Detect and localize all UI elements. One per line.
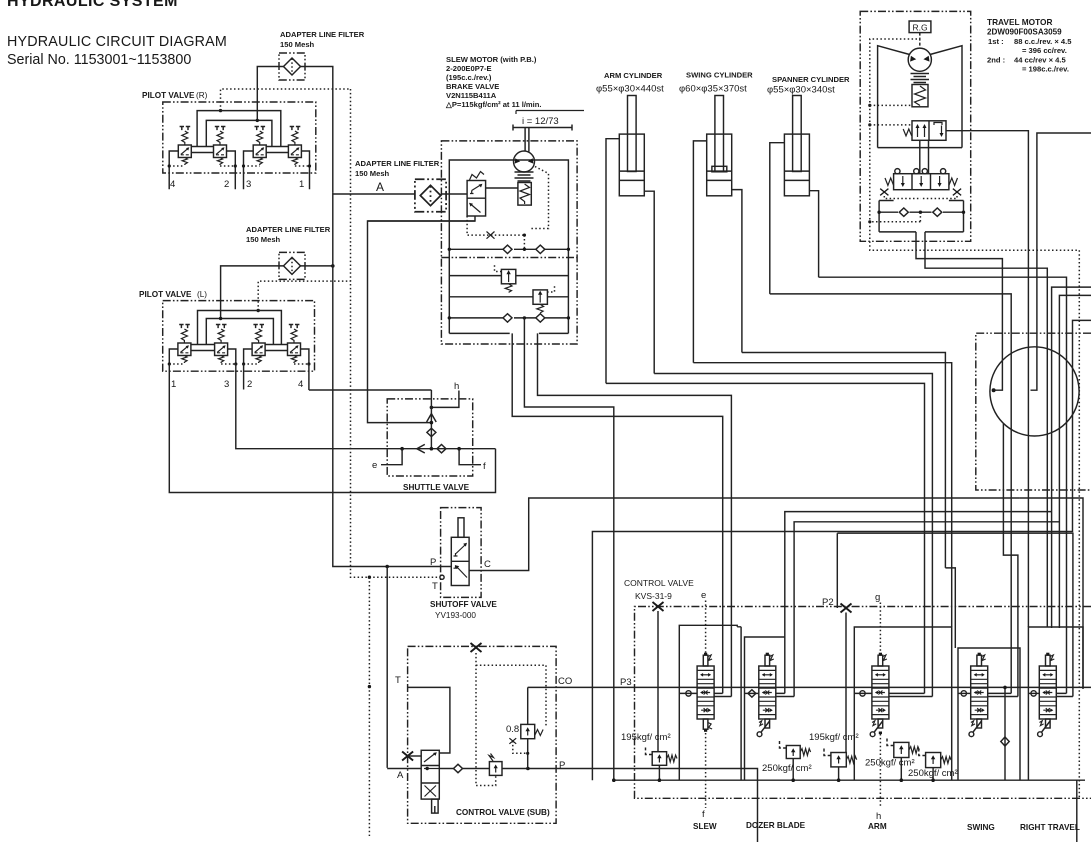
svg-text:f: f <box>483 461 486 472</box>
symbol bottom cell shutoff <box>454 565 468 577</box>
wire pilot return bundle 1 <box>785 287 1091 693</box>
enclosure control valve sub <box>408 646 556 823</box>
mid relief sub <box>489 762 502 776</box>
wire travel line A <box>916 232 1002 385</box>
drain dotted to tank line pilot R <box>221 89 351 111</box>
svg-text:1: 1 <box>299 179 304 190</box>
stubs swing right <box>988 693 1018 696</box>
wire e stub <box>381 449 402 465</box>
relief line upper <box>449 275 568 277</box>
svg-text:= 198c.c./rev.: = 198c.c./rev. <box>1022 65 1069 74</box>
wire T port <box>408 687 450 753</box>
wire port drop R1 <box>301 151 309 189</box>
svg-text:P: P <box>430 557 436 568</box>
x plug P2 <box>841 604 852 613</box>
arm cylinder <box>619 96 644 196</box>
wire A through valve to P <box>439 768 489 770</box>
brake release valve <box>467 181 486 217</box>
svg-text:g: g <box>875 592 880 603</box>
wire pilot return bundle 3 <box>592 320 1091 780</box>
wire pilot L port1 return <box>169 364 495 493</box>
dotted pilot network <box>476 653 496 786</box>
brake disc stack <box>911 74 930 83</box>
relief line lower <box>449 296 568 298</box>
svg-text:ADAPTER LINE FILTER: ADAPTER LINE FILTER <box>355 159 440 168</box>
spanner cylinder <box>784 96 809 196</box>
svg-text:150 Mesh: 150 Mesh <box>355 169 390 178</box>
stubs right travel right <box>1056 693 1073 696</box>
svg-text:h: h <box>876 811 881 822</box>
wire long vertical P supply (filter1 right) down to shutoff P <box>333 193 451 567</box>
svg-text:195kgf/ cm²: 195kgf/ cm² <box>809 732 859 743</box>
svg-text:h: h <box>454 381 459 392</box>
brake cylinder with spring <box>518 183 531 206</box>
wire port drop L4 <box>301 349 309 364</box>
x plug P1 <box>653 602 664 611</box>
arrow left on shuttle e line <box>417 444 425 453</box>
check diamond on shuttle f line <box>437 445 446 453</box>
pilot unit L2 <box>252 325 265 364</box>
enclosure travel motor <box>860 11 971 241</box>
spool dozer <box>759 653 776 719</box>
spring two speed valve <box>903 129 912 136</box>
svg-text:e: e <box>701 590 706 601</box>
spool right travel <box>1039 653 1056 719</box>
rail drop right <box>1076 780 1078 842</box>
travel motor circle <box>908 48 931 71</box>
enclosure KVS dash-dot <box>635 607 1091 799</box>
svg-text:PILOT VALVE: PILOT VALVE <box>139 290 192 299</box>
relief valve slew 2 <box>533 290 547 304</box>
travel brake cylinder <box>912 85 928 107</box>
wire filter F3 right to slew valve <box>441 193 467 195</box>
wire slew exit B <box>524 318 613 780</box>
work frame right travel section <box>1028 627 1083 780</box>
svg-text:△P=115kgf/cm² at 11 l/min.: △P=115kgf/cm² at 11 l/min. <box>445 100 542 109</box>
svg-text:P2: P2 <box>822 597 834 608</box>
tank dotted rail down to shutoff T <box>351 89 441 577</box>
wire A port <box>387 768 421 770</box>
wire swing head line across <box>742 353 955 649</box>
drain dotted segments pilot R <box>169 165 309 167</box>
svg-text:2nd :: 2nd : <box>987 56 1005 65</box>
wire filter F2 right to long vertical <box>301 265 333 267</box>
riser P1 to slew relief <box>657 611 659 752</box>
wire arm rod line across <box>606 383 925 693</box>
filter F3 <box>415 179 446 211</box>
svg-text:A: A <box>376 180 384 194</box>
check diamond on shuttle center <box>427 428 436 436</box>
enclosure shutoff valve <box>441 508 482 598</box>
svg-text:e: e <box>372 460 377 471</box>
stub swing left with bypass circle <box>958 692 971 694</box>
svg-text:P3: P3 <box>620 677 632 688</box>
pilot unit L1 <box>178 325 191 364</box>
svg-text:ADAPTER LINE FILTER: ADAPTER LINE FILTER <box>246 225 331 234</box>
wire spanner head-side port <box>809 191 819 278</box>
wire C output <box>469 498 1019 571</box>
check line lower <box>449 317 568 319</box>
svg-text:SLEW MOTOR (with P.B.): SLEW MOTOR (with P.B.) <box>446 55 537 64</box>
check line upper <box>449 248 568 250</box>
wire speed pilot in from edge <box>1037 133 1091 381</box>
wire pilot L port3 check line <box>236 364 496 449</box>
slew motor circle <box>514 151 535 172</box>
svg-text:SHUTOFF VALVE: SHUTOFF VALVE <box>430 600 497 609</box>
svg-text:250kgf/ cm²: 250kgf/ cm² <box>865 758 915 769</box>
stub dozer left with bypass diamond <box>745 692 759 694</box>
enclosure shuttle valve <box>387 399 473 476</box>
wire slew exit A <box>512 333 723 693</box>
pilot line f dotted <box>705 733 707 808</box>
stubs slew right <box>714 693 731 696</box>
sub valve tab <box>432 799 439 813</box>
wire arm head line across <box>654 374 932 697</box>
dotted brake pilot <box>531 167 548 229</box>
svg-text:= 396 cc/rev.: = 396 cc/rev. <box>1022 46 1067 55</box>
svg-text:44 cc/rev × 4.5: 44 cc/rev × 4.5 <box>1014 56 1067 65</box>
wire CO / P3 main line <box>528 686 1091 688</box>
svg-text:1st :: 1st : <box>988 37 1004 46</box>
brake disc stack <box>515 172 534 181</box>
wire port drop L2 <box>244 349 253 364</box>
wire pilot return bundle 2 <box>794 295 1091 696</box>
x plug on top border <box>471 643 482 652</box>
wire link L1-L3 <box>191 345 215 351</box>
svg-text:CONTROL VALVE (SUB): CONTROL VALVE (SUB) <box>456 808 550 817</box>
x drains counterbalance <box>880 189 888 196</box>
svg-text:88 c.c./rev. × 4.5: 88 c.c./rev. × 4.5 <box>1014 37 1072 46</box>
wire filter F2 left to pilot L supply <box>221 266 284 319</box>
enclosure swivel dash-dot <box>976 333 1091 490</box>
stub pilot L port2 <box>243 364 245 390</box>
svg-text:3: 3 <box>224 379 229 390</box>
check box travel <box>879 201 963 232</box>
drain dotted to tank line pilot L <box>258 281 350 310</box>
svg-text:SHUTTLE VALVE: SHUTTLE VALVE <box>403 483 470 492</box>
svg-text:i = 12/73: i = 12/73 <box>522 116 559 127</box>
pilot unit R3 <box>253 127 266 166</box>
wire spanner rod-side port <box>770 143 785 294</box>
orifice dotted drain <box>467 216 524 249</box>
wire T dotted port <box>439 576 441 578</box>
counterbalance valve travel <box>894 174 949 190</box>
body shutoff valve <box>451 537 469 585</box>
pilot line e dotted <box>705 601 707 654</box>
work frame slew section <box>679 625 741 780</box>
tank dotted branch down to control valve sub T <box>368 577 370 836</box>
work frame arm section <box>854 627 951 780</box>
shaft dashed <box>919 33 921 49</box>
wire port drop L1 <box>169 349 178 364</box>
wire port drop R4 <box>169 151 178 189</box>
svg-text:4: 4 <box>170 179 175 190</box>
wire inner bridge pilot R <box>206 120 272 147</box>
arrow up on shuttle center <box>427 414 437 422</box>
svg-text:2DW090F00SA3059: 2DW090F00SA3059 <box>987 28 1062 37</box>
svg-text:A: A <box>397 770 404 781</box>
enclosure pilot valve R <box>163 102 316 173</box>
wire C line riser down <box>1019 498 1083 689</box>
svg-text:ARM CYLINDER: ARM CYLINDER <box>604 71 663 80</box>
check diamond swing drain <box>1004 689 1006 780</box>
wire valve to brake cylinder <box>486 187 518 189</box>
svg-text:T: T <box>395 675 401 686</box>
svg-text:PILOT VALVE: PILOT VALVE <box>142 91 195 100</box>
wire arm head-side port <box>644 191 654 373</box>
wire outer bridge pilot L <box>198 311 282 346</box>
swivel joint circle <box>990 347 1079 436</box>
wire filter F1 left to pilot R supply drop <box>257 67 283 121</box>
svg-text:250kgf/ cm²: 250kgf/ cm² <box>762 763 812 774</box>
wire link L2-L4 <box>265 345 287 351</box>
svg-text:R.G: R.G <box>913 23 928 33</box>
svg-text:0.8: 0.8 <box>506 724 519 735</box>
svg-text:RIGHT TRAVEL: RIGHT TRAVEL <box>1020 823 1080 832</box>
wire pilot return bundle 4 <box>837 533 1073 696</box>
relief valve slew 1 <box>501 269 515 283</box>
svg-text:YV193-000: YV193-000 <box>435 611 476 620</box>
shaft coupling bar <box>513 125 572 131</box>
wire swing section feed from swivel <box>1003 424 1018 697</box>
shaft double line <box>525 128 529 152</box>
check line travel <box>879 211 963 213</box>
wire arm rod-side port <box>606 139 619 384</box>
wire swing rod line across <box>693 363 951 627</box>
R.G box <box>909 21 931 33</box>
svg-text:SLEW: SLEW <box>693 822 717 831</box>
housing slew motor inner box <box>449 160 568 333</box>
svg-text:3: 3 <box>246 179 251 190</box>
riser 0.8 to CO <box>527 687 529 724</box>
speed valve dotted pilot <box>870 124 912 126</box>
work frame swing section <box>958 648 1020 780</box>
x plug on left border <box>402 752 413 761</box>
wire pilot L port4 to shuttle top <box>309 364 432 390</box>
svg-text:ARM: ARM <box>868 822 887 831</box>
case mid line <box>878 147 962 149</box>
svg-text:4: 4 <box>298 379 303 390</box>
wire h stub <box>431 391 459 408</box>
dotted drain through right <box>1078 390 1080 798</box>
svg-text:φ55×φ30×440st: φ55×φ30×440st <box>596 84 664 95</box>
spool slew <box>697 653 714 719</box>
svg-text:SWING: SWING <box>967 823 995 832</box>
dotted case frame <box>870 39 1080 390</box>
stub arm left with bypass circle <box>854 692 872 694</box>
svg-text:(R): (R) <box>196 91 208 100</box>
wire link R3-R1 <box>266 147 288 153</box>
wire f stub <box>459 449 481 465</box>
svg-text:195kgf/ cm²: 195kgf/ cm² <box>621 732 671 743</box>
svg-text:DOZER BLADE: DOZER BLADE <box>746 821 806 830</box>
svg-text:HYDRAULIC SYSTEM: HYDRAULIC SYSTEM <box>7 0 178 10</box>
svg-text:Serial No. 1153001~1153800: Serial No. 1153001~1153800 <box>7 52 191 68</box>
wire filter F1 right to long vertical <box>301 67 333 193</box>
wire brake release line <box>368 216 476 221</box>
svg-text:HYDRAULIC CIRCUIT DIAGRAM: HYDRAULIC CIRCUIT DIAGRAM <box>7 34 227 50</box>
wire outer bridge pilot R <box>197 111 281 147</box>
svg-text:150 Mesh: 150 Mesh <box>246 235 281 244</box>
dotted pilot 0.8 <box>513 741 528 753</box>
svg-text:CONTROL VALVE: CONTROL VALVE <box>624 578 694 588</box>
svg-text:CO: CO <box>558 676 572 687</box>
title block <box>7 0 227 68</box>
svg-text:2: 2 <box>224 179 229 190</box>
wire travel line B <box>925 232 1047 627</box>
wire spanner rod line across <box>770 294 1011 694</box>
svg-text:ADAPTER LINE FILTER: ADAPTER LINE FILTER <box>280 30 365 39</box>
wire A drop down to control valve sub A port <box>386 567 388 768</box>
wire spanner head line across <box>819 277 1067 693</box>
svg-text:TRAVEL MOTOR: TRAVEL MOTOR <box>987 17 1052 27</box>
filter F2 <box>279 252 305 279</box>
enclosure slew motor dash-dot <box>441 141 577 344</box>
svg-text:150 Mesh: 150 Mesh <box>280 40 315 49</box>
svg-text:T: T <box>432 581 438 592</box>
svg-text:V2N115B411A: V2N115B411A <box>446 91 497 100</box>
wire swing head-side port <box>732 190 742 353</box>
bottom tank rail <box>614 779 1085 781</box>
junction P line to A drop <box>385 565 389 569</box>
label gear ratio i=12/73 <box>516 111 584 115</box>
pilot line g dotted <box>879 603 881 654</box>
svg-text:(L): (L) <box>197 290 207 299</box>
pilot unit L3 <box>215 325 228 364</box>
svg-text:φ60×φ35×370st: φ60×φ35×370st <box>679 84 747 95</box>
symbol top cell shutoff <box>454 544 467 556</box>
wire A branch to second filter line <box>333 193 415 195</box>
check diamond sub <box>454 764 463 772</box>
riser P2 to arm relief <box>845 613 847 753</box>
svg-text:φ55×φ30×340st: φ55×φ30×340st <box>767 85 835 96</box>
svg-text:1: 1 <box>171 379 176 390</box>
pilot unit R1 <box>288 127 301 166</box>
case funnel wires <box>878 46 962 148</box>
dash-dot divider <box>441 257 577 259</box>
swing cylinder <box>707 96 732 196</box>
svg-text:f: f <box>702 809 705 820</box>
spool swing <box>971 653 988 719</box>
spring above brake valve <box>470 172 485 181</box>
svg-text:(195c.c./rev.): (195c.c./rev.) <box>446 73 492 82</box>
enclosure pilot valve L <box>163 301 315 372</box>
svg-text:KVS-31-9: KVS-31-9 <box>635 591 672 601</box>
stubs dozer right <box>776 693 794 696</box>
pilot line h dotted <box>879 734 881 808</box>
wire P line <box>502 769 758 842</box>
lever shutoff valve <box>458 518 464 538</box>
wire shuttle center vertical <box>430 390 432 449</box>
svg-text:2: 2 <box>247 379 252 390</box>
wire port drop R3 <box>244 151 254 189</box>
pilot unit L4 <box>288 325 301 364</box>
sub valve body <box>421 750 439 799</box>
wires valve to counterbalance <box>920 140 929 173</box>
wire port drop L3 <box>228 349 236 364</box>
dotted brake pilot travel <box>870 104 912 106</box>
two speed valve <box>912 121 946 141</box>
line end port B in swivel <box>1031 381 1037 390</box>
spool arm <box>872 653 889 719</box>
svg-text:SWING CYLINDER: SWING CYLINDER <box>686 71 753 80</box>
work frame dozer section <box>745 637 785 780</box>
springs counterbalance <box>885 178 894 185</box>
svg-text:C: C <box>484 559 491 570</box>
svg-text:BRAKE VALVE: BRAKE VALVE <box>446 82 499 91</box>
stubs arm right <box>889 693 933 696</box>
filter F1 <box>279 53 305 80</box>
svg-text:SPANNER CYLINDER: SPANNER CYLINDER <box>772 75 850 84</box>
stub right travel left with bypass circle <box>1028 692 1039 694</box>
wire slew brake line into shuttle <box>368 221 476 423</box>
wire link R4-R2 <box>191 147 213 153</box>
wire slew exit C <box>538 333 732 696</box>
wire inner bridge pilot L <box>206 319 273 346</box>
svg-text:2-200E0P7-E: 2-200E0P7-E <box>446 64 492 73</box>
wire speed pilot out <box>946 131 1028 627</box>
wire port drop R2 <box>226 151 235 189</box>
svg-text:P: P <box>559 760 565 771</box>
wire swing rod-side port <box>693 141 706 363</box>
pilot unit R2 <box>214 127 227 166</box>
line end port A in swivel <box>994 385 1003 390</box>
pilot unit R4 <box>178 127 191 166</box>
riser 0.8 down to P <box>527 739 529 769</box>
drain dotted segments pilot L <box>169 363 309 365</box>
stub slew left with bypass circle <box>679 692 697 694</box>
